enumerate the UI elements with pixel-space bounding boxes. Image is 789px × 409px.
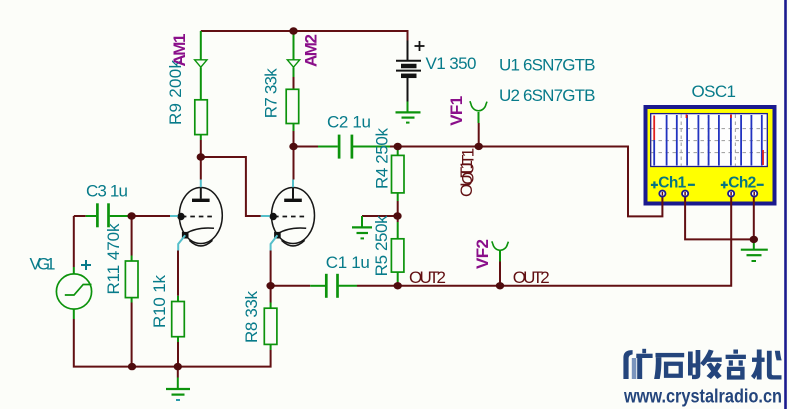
svg-text:OUT2: OUT2 (513, 268, 550, 287)
svg-text:C3 1u: C3 1u (86, 182, 128, 201)
svg-text:VF1: VF1 (447, 96, 466, 126)
svg-text:OSC1: OSC1 (692, 82, 737, 101)
svg-text:U1 6SN7GTB: U1 6SN7GTB (499, 55, 596, 74)
svg-text:VG1: VG1 (30, 255, 56, 274)
svg-text:V1 350: V1 350 (426, 54, 477, 73)
svg-text:R10 1k: R10 1k (150, 275, 169, 329)
svg-text:R9 200k: R9 200k (166, 60, 185, 126)
svg-text:R4 250k: R4 250k (373, 128, 392, 190)
svg-text:R8 33k: R8 33k (242, 291, 261, 344)
svg-text:OUT1: OUT1 (459, 148, 478, 185)
svg-text:R5 250k: R5 250k (372, 215, 391, 277)
svg-text:www.crystalradio.cn: www.crystalradio.cn (623, 387, 782, 408)
svg-text:C1 1u: C1 1u (326, 253, 370, 272)
svg-text:AM2: AM2 (302, 34, 321, 67)
svg-text:C2 1u: C2 1u (327, 113, 371, 132)
svg-text:Ch2: Ch2 (728, 175, 756, 192)
svg-text:R11 470k: R11 470k (104, 223, 123, 295)
svg-text:U2 6SN7GTB: U2 6SN7GTB (499, 86, 596, 105)
svg-text:VF2: VF2 (473, 239, 492, 269)
svg-text:OUT2: OUT2 (409, 268, 446, 287)
svg-text:Ch1: Ch1 (658, 175, 686, 192)
svg-text:R7 33k: R7 33k (261, 68, 280, 119)
svg-text:AM1: AM1 (170, 34, 189, 67)
